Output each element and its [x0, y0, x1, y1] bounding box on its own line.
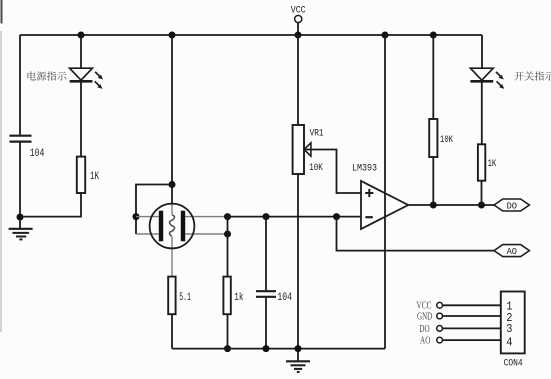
wire R2 to output — [432, 157, 434, 205]
svg-text:10K: 10K — [309, 162, 323, 174]
wire VR1 bottom to bottom rail — [297, 174, 299, 349]
pin AO circle — [437, 337, 443, 343]
ground GND left — [9, 220, 33, 239]
wire pin1 — [443, 304, 501, 306]
wire D1 to R1 — [80, 82, 82, 157]
wire minus input line — [228, 216, 362, 218]
wire sensor right pins vertical — [227, 217, 229, 277]
svg-text:VR1: VR1 — [310, 128, 324, 140]
pin VCC circle — [437, 302, 443, 308]
ground GND bottom — [286, 352, 310, 372]
pin GND circle — [437, 313, 443, 319]
wire opamp power vertical — [384, 35, 386, 349]
node bottom rail C2 — [263, 345, 270, 352]
capacitor C1 104 — [10, 136, 45, 161]
label 开关指示 switch indicator — [514, 71, 551, 80]
svg-text:DO: DO — [507, 200, 518, 211]
LED D1 power indicator — [70, 68, 103, 89]
resistor R2 10K pullup — [429, 119, 453, 157]
left image-edge artifact light — [0, 31, 2, 332]
wire top rail to sensor — [171, 35, 173, 185]
wire top rail to R2 — [432, 35, 434, 119]
node bottom rail R5 — [224, 345, 231, 352]
gas sensor MQ body — [136, 185, 228, 277]
wire D2 to R3 — [481, 82, 483, 144]
svg-text:104: 104 — [30, 148, 45, 160]
op-amp U1 LM393 — [352, 162, 408, 229]
node bottom rail ground junction — [295, 345, 302, 352]
port AO flag — [494, 245, 529, 257]
wire output line — [408, 204, 494, 206]
resistor R3 1K led series — [478, 144, 497, 180]
wire C2 top — [265, 217, 267, 291]
wire sensor left electrode loop — [136, 185, 172, 235]
node top rail / sensor branch — [169, 32, 176, 39]
node sensor right pin top — [224, 213, 231, 220]
label 电源指示 power indicator — [27, 71, 66, 80]
wire left rail upper (VCC to C1) — [19, 35, 21, 135]
wire VR1 wiper to plus input — [304, 150, 361, 194]
connector CON4 box — [501, 292, 525, 370]
svg-text:5.1: 5.1 — [179, 292, 191, 304]
svg-text:104: 104 — [277, 292, 292, 304]
port DO flag — [494, 199, 529, 211]
svg-text:10K: 10K — [440, 134, 453, 146]
resistor R5 1k load — [223, 277, 243, 315]
resistor R4 5.1 heater — [168, 277, 191, 315]
wire AO line — [337, 217, 495, 251]
wire R3 to output — [481, 181, 483, 205]
svg-text:AO: AO — [420, 336, 431, 347]
wire VCC rail to VR1 — [297, 35, 299, 125]
connector CON4 — [416, 301, 432, 347]
LED D2 switch indicator — [470, 68, 504, 89]
wire R5 to bottom rail — [227, 314, 229, 348]
node sensor left pin junction — [133, 213, 140, 220]
capacitor C2 104 — [256, 291, 292, 304]
svg-text:VCC: VCC — [416, 301, 431, 312]
svg-text:AO: AO — [507, 246, 518, 257]
left image-edge artifact dark — [1, 0, 3, 24]
svg-text:1K: 1K — [90, 171, 99, 183]
svg-text:1K: 1K — [488, 158, 497, 170]
node top rail VCC stub — [295, 32, 302, 39]
wire pin4 — [443, 339, 501, 341]
potentiometer VR1 10K — [293, 125, 324, 174]
node top rail / LED D1 branch — [78, 32, 85, 39]
wire bottom ground rail — [172, 348, 385, 350]
wire R1 bottom to ground node — [20, 193, 81, 217]
node sensor top junction — [169, 181, 176, 188]
resistor R1 1K — [77, 157, 99, 193]
node top rail opamp power — [382, 32, 389, 39]
node output 10K junction — [430, 202, 437, 209]
svg-text:4: 4 — [506, 336, 512, 349]
node output LED junction — [478, 202, 485, 209]
node sensor right pin bottom — [224, 231, 231, 238]
svg-text:CON4: CON4 — [504, 357, 523, 369]
svg-text:1k: 1k — [234, 292, 243, 304]
wire pin2 — [443, 315, 501, 317]
wire top rail right corner to D2 — [481, 35, 483, 68]
node AO tap on minus line — [333, 213, 340, 220]
svg-text:3: 3 — [506, 323, 512, 336]
node C2 tap — [263, 213, 270, 220]
wire top rail to D1 — [80, 35, 82, 68]
wire C2 bottom — [265, 298, 267, 349]
node top rail 10K branch — [430, 32, 437, 39]
wire R4 to bottom rail — [171, 314, 173, 348]
wire C1 to ground node — [19, 143, 21, 217]
wire pin3 — [443, 327, 501, 329]
pin DO circle — [437, 326, 443, 332]
VCC power symbol — [291, 5, 306, 35]
wire top VCC rail — [20, 34, 482, 36]
svg-text:DO: DO — [419, 324, 430, 335]
svg-text:GND: GND — [417, 312, 432, 323]
svg-text:LM393: LM393 — [352, 162, 377, 174]
node left ground junction — [17, 214, 24, 221]
